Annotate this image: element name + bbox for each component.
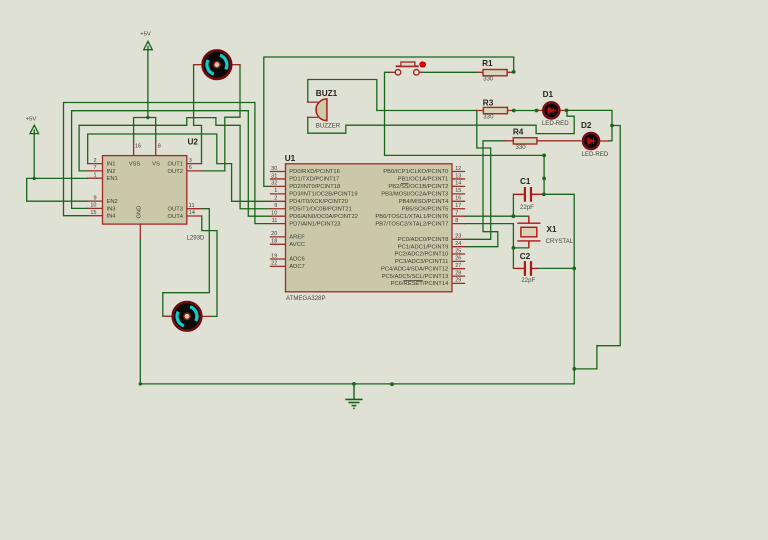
svg-text:330: 330 xyxy=(483,76,494,83)
svg-text:OUT2: OUT2 xyxy=(168,169,183,175)
svg-text:LED-RED: LED-RED xyxy=(542,120,569,127)
buzzer BUZ1 body xyxy=(316,99,327,121)
wire button left to ground riser xyxy=(385,72,545,194)
resistor R1 xyxy=(483,70,507,76)
svg-text:330: 330 xyxy=(516,144,527,151)
svg-text:14: 14 xyxy=(189,210,195,216)
svg-text:PD3/INT1/OC2B/PCINT19: PD3/INT1/OC2B/PCINT19 xyxy=(289,192,357,198)
svg-text:LED-RED: LED-RED xyxy=(582,151,609,158)
svg-text:26: 26 xyxy=(455,256,461,262)
svg-text:PD5/T1/OC0B/PCINT21: PD5/T1/OC0B/PCINT21 xyxy=(289,207,352,213)
svg-text:VSS: VSS xyxy=(129,162,141,168)
svg-text:27: 27 xyxy=(455,263,461,269)
U2 top pin names xyxy=(129,162,160,168)
svg-text:BUZ1: BUZ1 xyxy=(316,89,338,98)
svg-text:PC5/ADC5/SCL/PCINT13: PC5/ADC5/SCL/PCINT13 xyxy=(382,274,449,280)
U2 left pin names xyxy=(107,162,118,220)
svg-text:12: 12 xyxy=(455,166,461,172)
svg-text:U2: U2 xyxy=(188,138,199,147)
overline RESET on PC6 xyxy=(404,280,423,282)
wire +5V#2 stem xyxy=(147,50,149,118)
wire OUT3 to motor2 left xyxy=(163,209,210,317)
IC U2 L293D body xyxy=(103,156,187,225)
ground symbol xyxy=(345,384,362,409)
svg-text:22pF: 22pF xyxy=(521,277,535,284)
svg-text:30: 30 xyxy=(271,166,277,172)
motor1 pin stubs xyxy=(194,64,240,66)
svg-text:PC0/ADC0/PCINT8: PC0/ADC0/PCINT8 xyxy=(398,237,449,243)
svg-text:1: 1 xyxy=(274,188,277,194)
svg-text:31: 31 xyxy=(271,173,277,179)
wire D1 cathode to D2 joint xyxy=(567,110,613,140)
svg-text:PD1/TXD/PCINT17: PD1/TXD/PCINT17 xyxy=(289,177,339,183)
svg-text:PC3/ADC3/PCINT11: PC3/ADC3/PCINT11 xyxy=(395,259,448,265)
U1 left pin numbers xyxy=(271,166,277,267)
svg-text:OUT4: OUT4 xyxy=(168,214,184,220)
wire OUT4 to motor2 right xyxy=(202,216,217,316)
svg-text:ATMEGA328P: ATMEGA328P xyxy=(286,295,326,302)
svg-text:C2: C2 xyxy=(520,252,531,261)
svg-text:D2: D2 xyxy=(581,121,592,130)
svg-text:OUT3: OUT3 xyxy=(168,207,183,213)
U2 pin stub VS xyxy=(155,142,157,156)
buzzer pin stubs xyxy=(308,102,318,117)
svg-text:15: 15 xyxy=(90,210,96,216)
svg-text:2: 2 xyxy=(274,196,277,202)
IC U1 ATMEGA328P body xyxy=(286,164,453,292)
svg-text:R1: R1 xyxy=(482,59,493,68)
wire R3 left to PC0 xyxy=(464,111,490,240)
svg-text:16: 16 xyxy=(455,196,461,202)
svg-text:PC2/ADC2/PCINT10: PC2/ADC2/PCINT10 xyxy=(394,252,448,258)
svg-text:8: 8 xyxy=(158,143,161,149)
capacitor C1 xyxy=(513,187,544,202)
svg-text:+5V: +5V xyxy=(140,31,151,37)
svg-text:PB6/TOSC1/XTAL1/PCINT6: PB6/TOSC1/XTAL1/PCINT6 xyxy=(375,214,448,220)
svg-text:PB3/MOSI/OC2A/PCINT3: PB3/MOSI/OC2A/PCINT3 xyxy=(381,192,448,198)
U2 pin stubs left xyxy=(88,164,103,216)
capacitor C2 xyxy=(513,261,538,276)
svg-text:23: 23 xyxy=(455,234,461,240)
svg-text:330: 330 xyxy=(483,114,494,121)
svg-text:28: 28 xyxy=(455,270,461,276)
svg-text:13: 13 xyxy=(455,173,461,179)
svg-text:19: 19 xyxy=(271,253,277,259)
button lead stubs xyxy=(390,71,421,73)
svg-text:GND: GND xyxy=(136,206,142,219)
svg-text:20: 20 xyxy=(271,231,277,237)
wire R1 top net to PD2 xyxy=(264,57,514,186)
svg-text:L293D: L293D xyxy=(187,234,206,241)
power +5V #1 xyxy=(30,125,39,133)
wire PB6 XTAL1 C1 xyxy=(464,194,528,216)
svg-text:PB4/MISO/PCINT4: PB4/MISO/PCINT4 xyxy=(399,199,449,205)
svg-text:AVCC: AVCC xyxy=(289,242,305,248)
svg-text:15: 15 xyxy=(455,188,461,194)
wire C1 right to ground rail xyxy=(544,194,574,369)
svg-text:24: 24 xyxy=(455,241,461,247)
svg-text:AREF: AREF xyxy=(289,235,305,241)
U2 pin stub VSS xyxy=(133,142,135,156)
svg-text:7: 7 xyxy=(93,165,96,171)
wire motor1 right to OUT2 xyxy=(202,65,241,171)
svg-text:9: 9 xyxy=(93,195,96,201)
wire IN3 to PD6 xyxy=(72,111,271,217)
wire buzzer pin1 to R3 left xyxy=(308,80,477,111)
svg-text:PD4/T0/XCK/PCINT20: PD4/T0/XCK/PCINT20 xyxy=(289,199,348,205)
svg-text:PD0/RXD/PCINT16: PD0/RXD/PCINT16 xyxy=(289,169,340,175)
wire C2 right to ground riser xyxy=(537,267,574,269)
svg-text:ADC6: ADC6 xyxy=(289,257,304,263)
svg-text:PB2/SS/OC1B/PCINT2: PB2/SS/OC1B/PCINT2 xyxy=(388,184,448,190)
svg-text:10: 10 xyxy=(271,211,277,217)
svg-text:CRYSTAL: CRYSTAL xyxy=(546,238,574,245)
motor M1 top xyxy=(203,50,232,79)
resistor R4 xyxy=(513,138,537,144)
wire IN2 to PD5 xyxy=(79,118,271,209)
U1 left pin names xyxy=(289,169,358,270)
D2 lead stubs xyxy=(601,140,609,142)
motor2 pin stubs xyxy=(164,315,211,317)
svg-text:IN1: IN1 xyxy=(107,162,116,168)
svg-text:11: 11 xyxy=(189,203,195,209)
svg-text:29: 29 xyxy=(455,278,461,284)
svg-text:18: 18 xyxy=(271,239,277,245)
svg-text:3: 3 xyxy=(189,158,192,164)
wire PB7 XTAL2 C2 xyxy=(464,224,528,269)
resistor R3 xyxy=(483,107,507,113)
overline SS on PB2 xyxy=(401,183,409,185)
D1 lead stubs xyxy=(537,109,567,111)
U1 right pin names xyxy=(375,169,449,287)
LED D2 xyxy=(583,133,599,149)
svg-text:ADC7: ADC7 xyxy=(289,264,304,270)
svg-text:8: 8 xyxy=(455,218,458,224)
wire ground rail bottom xyxy=(140,238,574,384)
R1 lead stubs xyxy=(478,71,514,73)
svg-text:R4: R4 xyxy=(513,128,524,137)
svg-text:EN1: EN1 xyxy=(107,176,118,182)
U1 pin stubs right xyxy=(452,172,465,284)
svg-text:EN2: EN2 xyxy=(107,199,118,205)
U2 pin stubs right xyxy=(187,164,202,216)
svg-text:OUT1: OUT1 xyxy=(168,162,183,168)
U2 pin numbers xyxy=(90,158,96,216)
svg-text:6: 6 xyxy=(189,165,192,171)
svg-text:PD6/AIN0/OC0A/PCINT22: PD6/AIN0/OC0A/PCINT22 xyxy=(289,214,358,220)
svg-text:D1: D1 xyxy=(543,90,554,99)
svg-text:+5V: +5V xyxy=(26,116,37,122)
motor M2 bottom xyxy=(173,302,202,331)
LED D1 xyxy=(543,102,559,118)
svg-text:14: 14 xyxy=(455,181,461,187)
svg-text:U1: U1 xyxy=(285,154,296,163)
wire button right to R1 xyxy=(421,71,478,73)
wire R4 left to PC1 xyxy=(464,141,504,247)
svg-text:9: 9 xyxy=(274,203,277,209)
svg-text:PD2/INT0/PCINT18: PD2/INT0/PCINT18 xyxy=(289,184,340,190)
power +5V #2 xyxy=(144,41,153,49)
svg-text:PB7/TOSC2/XTAL2/PCINT7: PB7/TOSC2/XTAL2/PCINT7 xyxy=(375,221,448,227)
svg-text:7: 7 xyxy=(455,211,458,217)
svg-text:PC4/ADC4/SDA/PCINT12: PC4/ADC4/SDA/PCINT12 xyxy=(381,266,448,272)
svg-text:10: 10 xyxy=(90,203,96,209)
svg-text:IN4: IN4 xyxy=(107,214,117,220)
U1 right pin numbers xyxy=(455,166,461,284)
R3 lead stubs xyxy=(477,110,514,112)
push button xyxy=(395,61,425,75)
svg-text:PB5/SCK/PCINT5: PB5/SCK/PCINT5 xyxy=(402,207,449,213)
svg-text:25: 25 xyxy=(455,248,461,254)
wire motor1 left to OUT1 xyxy=(194,65,202,164)
wire IN1 to PD4 xyxy=(88,134,271,201)
wire +5V#1 stem to EN junction xyxy=(33,134,35,179)
svg-text:PB1/OC1A/PCINT1: PB1/OC1A/PCINT1 xyxy=(398,177,449,183)
R4 lead stubs xyxy=(505,140,581,142)
svg-text:11: 11 xyxy=(272,218,278,224)
svg-text:PC1/ADC1/PCINT9: PC1/ADC1/PCINT9 xyxy=(398,244,449,250)
svg-text:17: 17 xyxy=(455,203,461,209)
svg-text:16: 16 xyxy=(135,143,141,149)
svg-text:X1: X1 xyxy=(547,225,557,234)
svg-text:32: 32 xyxy=(271,181,277,187)
svg-text:22: 22 xyxy=(271,261,277,267)
svg-text:PB0/ICP1/CLKO/PCINT0: PB0/ICP1/CLKO/PCINT0 xyxy=(383,169,448,175)
svg-text:22pF: 22pF xyxy=(520,204,534,211)
wire buzzer pin2 to D1 cathode xyxy=(308,110,574,133)
svg-text:VS: VS xyxy=(152,162,160,168)
svg-text:BUZZER: BUZZER xyxy=(316,123,341,130)
wire IN4 to PD7 xyxy=(64,103,271,224)
wire R3 right to D1 anode xyxy=(514,110,537,112)
svg-text:IN3: IN3 xyxy=(107,206,116,212)
crystal X1 xyxy=(517,216,540,248)
svg-text:1: 1 xyxy=(93,173,96,179)
svg-text:PC6/RESET/PCINT14: PC6/RESET/PCINT14 xyxy=(391,281,449,287)
U2 right pin names xyxy=(168,162,184,220)
svg-text:R3: R3 xyxy=(483,99,494,108)
wire LED cathode staircase to ground xyxy=(574,126,620,369)
wire VSS-VS bridge xyxy=(134,118,156,142)
svg-text:C1: C1 xyxy=(520,177,531,186)
wire EN1/EN2 +5V loop xyxy=(27,178,88,201)
svg-text:IN2: IN2 xyxy=(107,169,116,175)
U1 pin stubs left xyxy=(271,172,286,267)
U2 pin stub GND xyxy=(139,224,141,238)
svg-text:2: 2 xyxy=(93,158,96,164)
svg-text:PD7/AIN1/PCINT23: PD7/AIN1/PCINT23 xyxy=(289,221,340,227)
